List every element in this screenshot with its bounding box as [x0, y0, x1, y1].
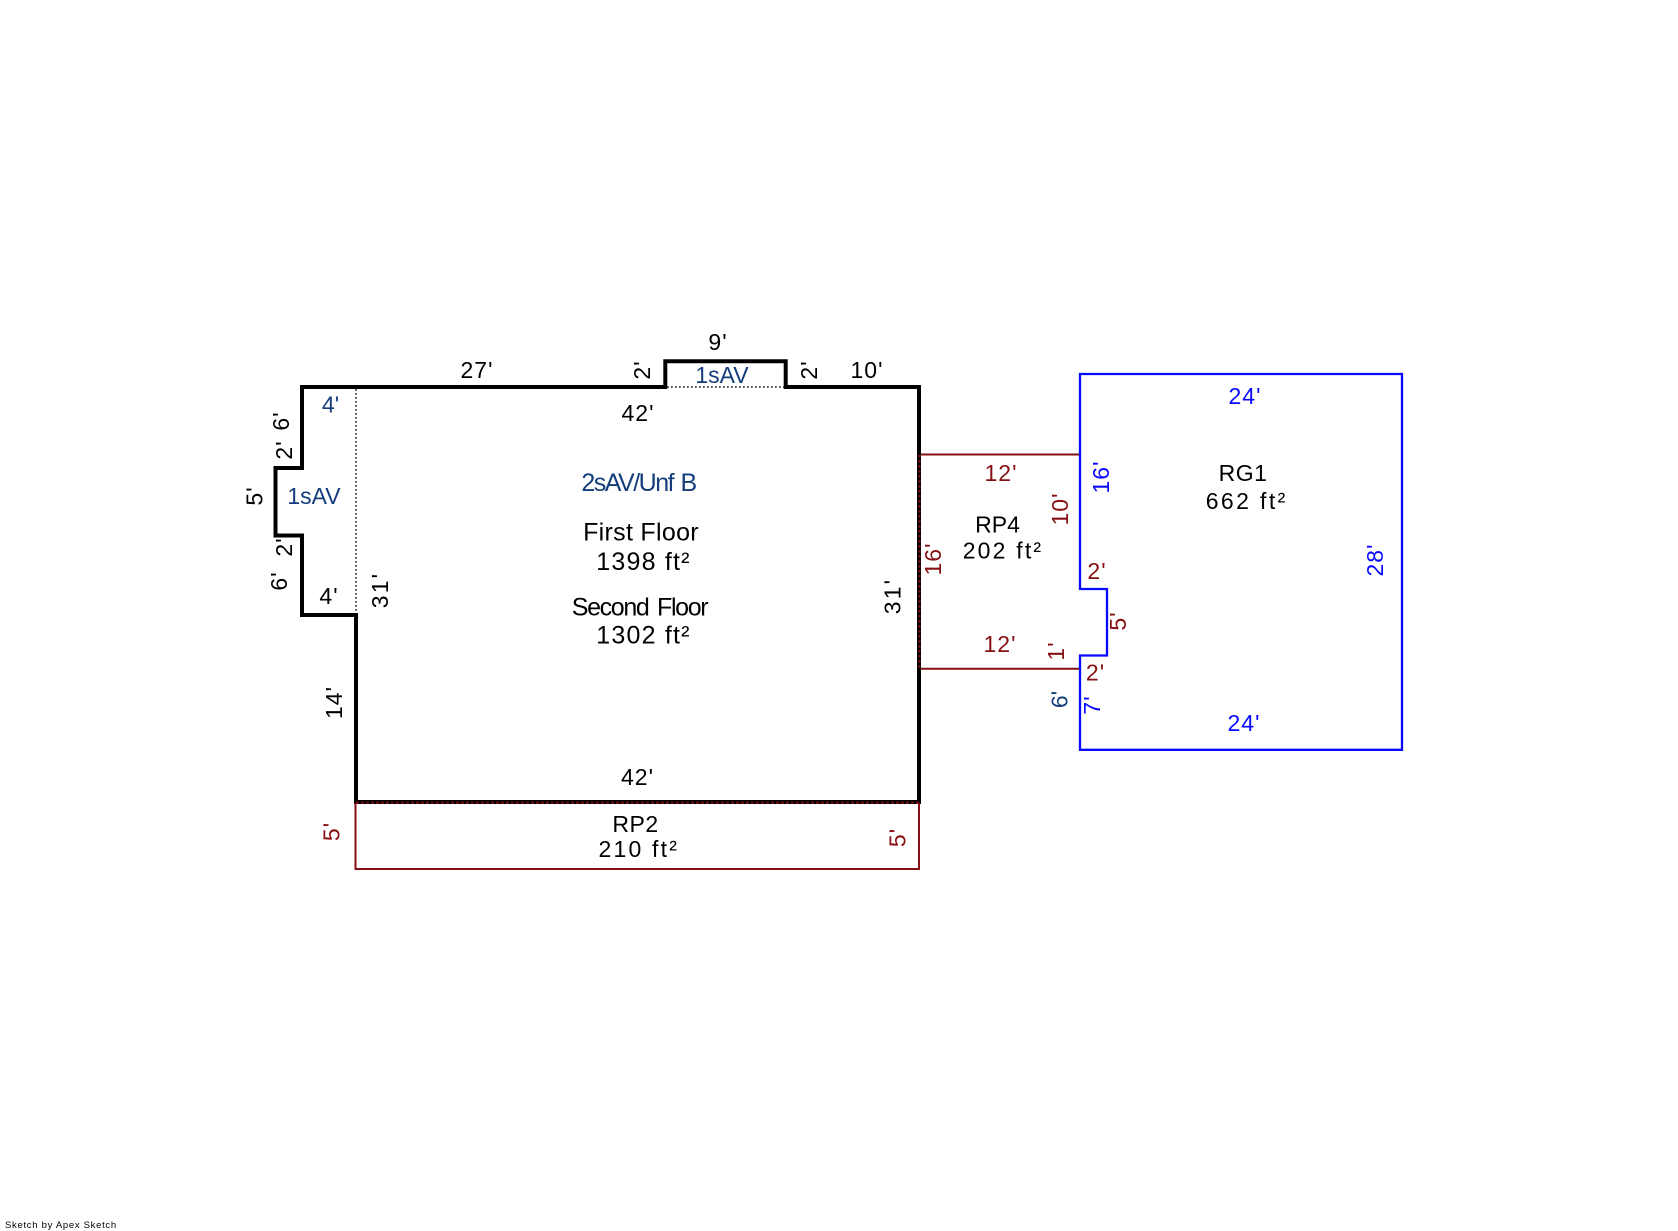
svg-text:2': 2' [629, 360, 655, 379]
svg-text:4': 4' [319, 583, 338, 609]
svg-text:2sAV/Unf B: 2sAV/Unf B [581, 469, 696, 497]
svg-text:16': 16' [920, 543, 946, 576]
svg-text:2': 2' [796, 360, 822, 379]
svg-text:RP4: RP4 [975, 512, 1020, 538]
svg-text:31': 31' [367, 572, 393, 609]
svg-text:10': 10' [851, 357, 884, 383]
svg-text:4': 4' [322, 392, 339, 418]
svg-text:5': 5' [885, 828, 911, 847]
svg-text:6': 6' [266, 571, 292, 590]
svg-text:24': 24' [1229, 383, 1262, 409]
svg-text:12': 12' [984, 631, 1017, 657]
svg-text:5': 5' [1105, 611, 1131, 630]
svg-text:42': 42' [621, 764, 654, 790]
svg-text:662 ft²: 662 ft² [1206, 488, 1288, 514]
svg-text:28': 28' [1362, 544, 1388, 577]
svg-text:5': 5' [242, 486, 268, 505]
svg-text:9': 9' [708, 329, 727, 355]
svg-text:1sAV: 1sAV [287, 483, 341, 509]
svg-text:First Floor: First Floor [583, 519, 699, 547]
svg-text:6': 6' [268, 411, 294, 430]
svg-text:RG1: RG1 [1219, 460, 1268, 486]
svg-text:2': 2' [1087, 558, 1106, 584]
svg-text:5': 5' [319, 822, 345, 841]
svg-text:RP2: RP2 [612, 811, 658, 837]
svg-text:1302 ft²: 1302 ft² [596, 622, 690, 650]
svg-text:Sketch by Apex Sketch: Sketch by Apex Sketch [5, 1220, 117, 1231]
svg-text:202 ft²: 202 ft² [963, 538, 1044, 564]
svg-text:1sAV: 1sAV [695, 362, 749, 388]
svg-text:7': 7' [1079, 695, 1105, 714]
svg-text:210 ft²: 210 ft² [598, 836, 679, 862]
svg-text:2': 2' [271, 440, 297, 459]
svg-text:2': 2' [271, 537, 297, 556]
svg-text:24': 24' [1228, 710, 1261, 736]
svg-text:2': 2' [1086, 660, 1105, 686]
svg-text:Second Floor: Second Floor [572, 594, 709, 622]
svg-text:31': 31' [880, 578, 906, 615]
svg-text:10': 10' [1047, 493, 1073, 526]
svg-text:12': 12' [985, 460, 1018, 486]
svg-text:16': 16' [1088, 461, 1114, 494]
svg-text:1398 ft²: 1398 ft² [596, 548, 690, 576]
svg-text:14': 14' [321, 686, 347, 719]
svg-text:42': 42' [622, 400, 655, 426]
svg-text:6': 6' [1047, 691, 1073, 708]
svg-text:1': 1' [1043, 641, 1069, 660]
svg-text:27': 27' [461, 357, 494, 383]
